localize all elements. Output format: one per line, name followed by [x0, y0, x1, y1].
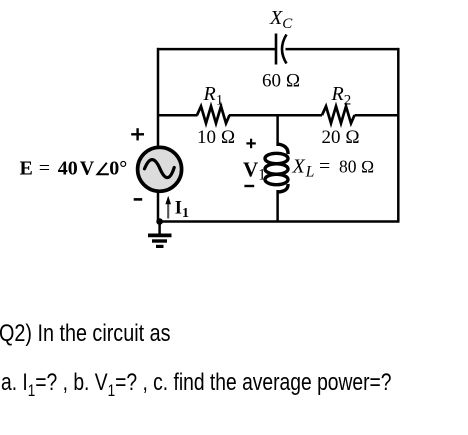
svg-text:20 Ω: 20 Ω — [322, 127, 360, 148]
resistor R1 — [197, 106, 230, 123]
wire left rail lower — [157, 191, 160, 222]
svg-text:60 Ω: 60 Ω — [262, 71, 300, 92]
polarity + (V1) — [246, 139, 255, 149]
wire top right segment — [286, 48, 399, 51]
wire middle left segment — [157, 114, 198, 117]
polarity + (source) — [131, 128, 144, 140]
inductor XL coil — [265, 144, 288, 192]
svg-text:R2: R2 — [331, 83, 352, 109]
angle symbol of E label — [98, 163, 109, 175]
wire top left segment — [157, 48, 275, 51]
capacitor XC — [276, 34, 287, 65]
svg-text:XC: XC — [269, 7, 293, 32]
wire right rail — [397, 48, 400, 222]
svg-text:XL=80 Ω: XL=80 Ω — [292, 155, 375, 180]
resistor R2 — [322, 106, 355, 123]
svg-text:10 Ω: 10 Ω — [197, 127, 235, 148]
svg-text:V1: V1 — [243, 157, 266, 183]
wire bottom — [158, 220, 400, 223]
polarity - (V1) — [244, 185, 254, 187]
wire left rail upper — [157, 48, 160, 147]
question text line 2 — [1, 369, 392, 401]
svg-text:E=40V0°: E=40V0° — [20, 157, 128, 179]
junction node dot — [156, 218, 163, 225]
wire middle center segment — [229, 114, 322, 117]
svg-text:I1: I1 — [175, 199, 189, 222]
current arrow I1 — [165, 196, 171, 219]
question text line 1 — [0, 320, 170, 348]
source E circle — [138, 147, 182, 191]
ground — [148, 222, 172, 247]
wire middle right segment — [355, 114, 399, 117]
wire middle rail lower — [276, 190, 279, 222]
svg-text:R1: R1 — [203, 83, 224, 109]
wire middle rail upper — [276, 115, 279, 146]
polarity - (source) — [134, 198, 143, 201]
